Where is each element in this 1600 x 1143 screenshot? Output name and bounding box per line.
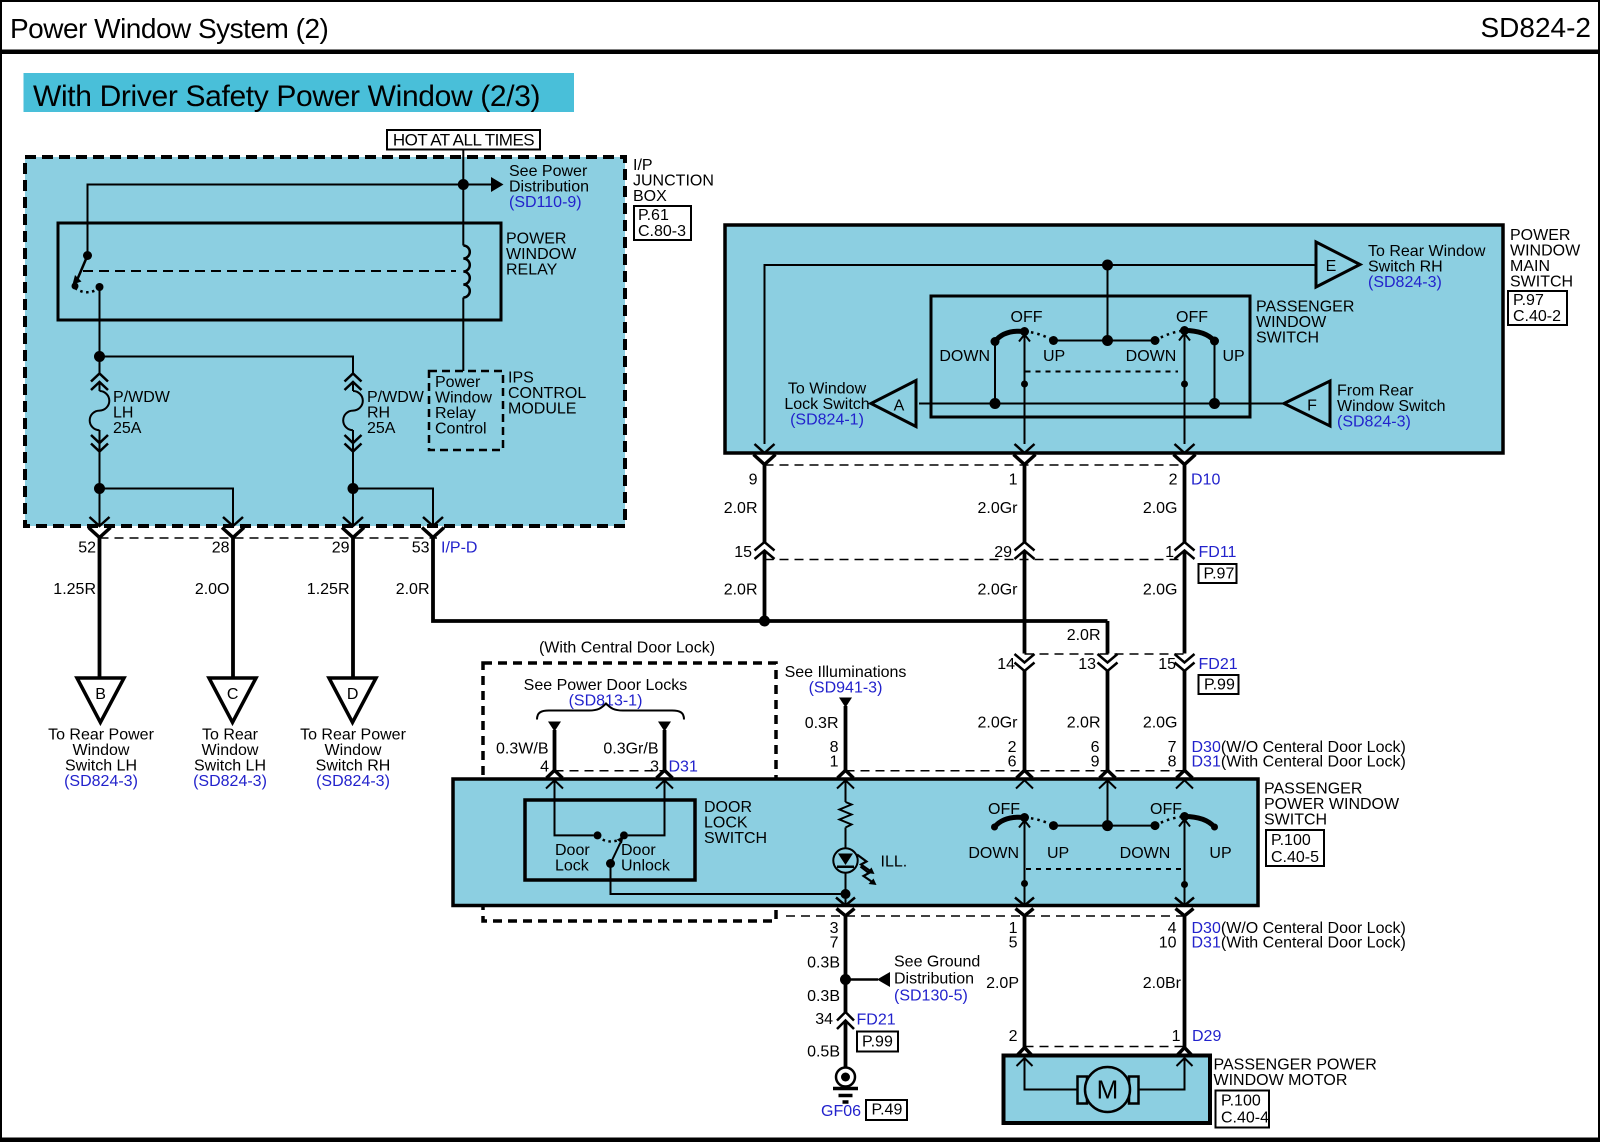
wire: hot feed to relay switch bbox=[88, 185, 464, 256]
svg-text:0.5B: 0.5B bbox=[807, 1044, 840, 1061]
svg-text:E: E bbox=[1326, 258, 1337, 275]
wire 2.0G FD11 to FD21 bbox=[1183, 551, 1187, 654]
svg-text:DOWN: DOWN bbox=[1126, 348, 1177, 365]
svg-text:To Rear: To Rear bbox=[202, 727, 259, 744]
svg-text:P.97: P.97 bbox=[1513, 292, 1544, 309]
wire: rocker bridge bbox=[1054, 340, 1156, 342]
svg-text:7: 7 bbox=[830, 935, 839, 952]
node: RH fuse output junction bbox=[348, 483, 359, 494]
wire 2.0R FD11 to junction bbox=[763, 551, 767, 622]
wire 2.0G FD21 to switch bbox=[1183, 671, 1187, 771]
entry chevrons above box edge bbox=[547, 770, 563, 778]
wire: pin 3 into door lock contact bbox=[628, 780, 665, 835]
svg-text:Window: Window bbox=[202, 742, 259, 759]
connector D29 chevrons bbox=[1016, 1048, 1033, 1057]
svg-text:0.3B: 0.3B bbox=[807, 955, 840, 972]
svg-text:D31(With Centeral Door Lock): D31(With Centeral Door Lock) bbox=[1192, 935, 1406, 952]
node: DOWN contact to A wire bbox=[990, 398, 1001, 409]
svg-text:MAIN: MAIN bbox=[1510, 258, 1550, 275]
svg-text:I/P: I/P bbox=[633, 157, 653, 174]
wire: door lock common to ILL junction bbox=[611, 864, 846, 895]
main switch ref P.97 C.40-2 bbox=[1508, 291, 1567, 325]
PASSENGER WINDOW SWITCH inner box bbox=[931, 296, 1250, 417]
svg-text:D31(With Centeral Door Lock): D31(With Centeral Door Lock) bbox=[1192, 754, 1406, 771]
svg-text:Unlock: Unlock bbox=[621, 858, 671, 875]
svg-text:15: 15 bbox=[734, 544, 752, 561]
svg-text:2.0P: 2.0P bbox=[986, 975, 1019, 992]
connector I/P-D exit arrows at box edge bbox=[90, 517, 110, 526]
svg-text:C: C bbox=[227, 686, 239, 703]
svg-text:3: 3 bbox=[650, 759, 659, 776]
wire 2.0O to triangle C bbox=[231, 538, 235, 678]
relay switch contact bbox=[83, 251, 92, 260]
svg-text:53: 53 bbox=[412, 540, 430, 557]
wire: relay output down bbox=[99, 287, 101, 357]
triangle E bbox=[1316, 242, 1360, 287]
svg-text:C.80-3: C.80-3 bbox=[638, 223, 686, 240]
wire and arrow See Ground Distribution bbox=[846, 978, 879, 981]
svg-text:(SD824-3): (SD824-3) bbox=[193, 773, 267, 790]
svg-text:SWITCH: SWITCH bbox=[1256, 330, 1319, 347]
svg-text:See Power: See Power bbox=[509, 163, 588, 180]
svg-text:0.3R: 0.3R bbox=[805, 715, 839, 732]
bottom exit chevrons bbox=[837, 909, 855, 916]
svg-text:52: 52 bbox=[78, 540, 96, 557]
svg-text:OFF: OFF bbox=[1176, 309, 1208, 326]
wire: center junction riser bbox=[1107, 780, 1109, 825]
node: ground distribution junction bbox=[840, 974, 851, 985]
wire LED to exit bbox=[845, 873, 847, 906]
svg-text:2.0G: 2.0G bbox=[1143, 715, 1178, 732]
svg-text:2.0G: 2.0G bbox=[1143, 582, 1178, 599]
svg-text:WINDOW: WINDOW bbox=[1256, 314, 1327, 331]
wire: upper left rocker common with up-arrow bbox=[1019, 335, 1030, 342]
node: ILL junction bbox=[841, 889, 851, 899]
wire: pin 4 into door lock contact bbox=[555, 780, 594, 835]
svg-text:FD21: FD21 bbox=[857, 1012, 896, 1029]
DOOR LOCK SWITCH box bbox=[525, 800, 695, 880]
upper left rocker switch bbox=[939, 309, 1065, 404]
svg-text:B: B bbox=[95, 686, 106, 703]
ground GF06 bbox=[836, 1068, 855, 1087]
svg-text:OFF: OFF bbox=[1150, 801, 1182, 818]
svg-text:DOWN: DOWN bbox=[1120, 845, 1171, 862]
svg-text:SWITCH: SWITCH bbox=[704, 830, 767, 847]
svg-text:Window: Window bbox=[325, 742, 382, 759]
upper right rocker switch bbox=[1126, 309, 1245, 404]
svg-text:BOX: BOX bbox=[633, 188, 667, 205]
connector D30 bottom dashed line bbox=[786, 915, 1185, 917]
svg-text:Switch LH: Switch LH bbox=[194, 758, 266, 775]
svg-text:(SD824-3): (SD824-3) bbox=[316, 773, 390, 790]
wire 2.0Gr FD11 to FD21 bbox=[1023, 551, 1027, 654]
svg-text:P.100: P.100 bbox=[1221, 1093, 1261, 1110]
svg-text:4: 4 bbox=[540, 759, 549, 776]
svg-text:(SD824-1): (SD824-1) bbox=[790, 412, 864, 429]
arrow to door lock wire 3 bbox=[658, 722, 671, 732]
svg-text:DOOR: DOOR bbox=[704, 799, 752, 816]
svg-text:2.0R: 2.0R bbox=[1067, 627, 1101, 644]
node: LH fuse output junction bbox=[94, 483, 105, 494]
svg-text:UP: UP bbox=[1209, 845, 1231, 862]
svg-text:ILL.: ILL. bbox=[881, 854, 908, 871]
svg-text:JUNCTION: JUNCTION bbox=[633, 173, 714, 190]
svg-text:2.0Gr: 2.0Gr bbox=[977, 715, 1018, 732]
svg-text:(SD941-3): (SD941-3) bbox=[809, 680, 883, 697]
triangle A bbox=[871, 381, 916, 427]
svg-text:1: 1 bbox=[830, 754, 839, 771]
mechanical link dashed bbox=[1026, 371, 1179, 373]
node: E feed junction bbox=[1102, 260, 1113, 271]
svg-text:1: 1 bbox=[1165, 544, 1174, 561]
svg-text:Window: Window bbox=[73, 742, 130, 759]
wire resistor to LED bbox=[845, 828, 847, 849]
connector I/P-D dashed line bbox=[100, 537, 438, 539]
triangle F bbox=[1284, 381, 1330, 426]
wire 0.3W/B bbox=[553, 730, 557, 771]
HOT AT ALL TIMES label bbox=[387, 130, 540, 150]
connector FD21 chevrons pin 13 bbox=[1098, 654, 1118, 671]
connector FD21 chevrons pin 15 bbox=[1175, 654, 1195, 671]
svg-text:1.25R: 1.25R bbox=[53, 581, 96, 598]
wire 2.0Gr pin1 to FD11 bbox=[1023, 465, 1027, 543]
svg-text:(SD824-3): (SD824-3) bbox=[64, 773, 138, 790]
connector FD11 dashed line bbox=[765, 559, 1185, 561]
relay switch lever bbox=[78, 256, 88, 280]
connector D10 chevrons bbox=[754, 455, 776, 465]
wire: branch to pin 53 bbox=[353, 489, 433, 527]
connector dashed line D30 top bbox=[846, 770, 1185, 772]
LED ILL bbox=[833, 848, 857, 872]
entry arrows inside box bbox=[546, 780, 563, 788]
wire: lower right rocker common bbox=[1179, 820, 1190, 827]
svg-text:2.0R: 2.0R bbox=[1067, 715, 1101, 732]
svg-text:25A: 25A bbox=[367, 420, 396, 437]
svg-text:14: 14 bbox=[997, 656, 1015, 673]
svg-text:0.3B: 0.3B bbox=[807, 988, 840, 1005]
svg-text:C.40-5: C.40-5 bbox=[1271, 849, 1319, 866]
brace bbox=[537, 704, 684, 720]
arrow to door lock wire 4 bbox=[548, 722, 561, 732]
wire: lower rocker bridge bbox=[1054, 825, 1156, 827]
svg-text:P/WDW: P/WDW bbox=[367, 389, 425, 406]
svg-text:POWER: POWER bbox=[506, 231, 566, 248]
svg-text:1: 1 bbox=[1009, 472, 1018, 489]
motor ref P.100 C.40-4 bbox=[1216, 1091, 1270, 1128]
svg-text:2.0Gr: 2.0Gr bbox=[977, 582, 1018, 599]
svg-text:Switch RH: Switch RH bbox=[316, 758, 391, 775]
svg-text:Distribution: Distribution bbox=[894, 971, 974, 988]
svg-text:Switch LH: Switch LH bbox=[65, 758, 137, 775]
svg-text:WINDOW: WINDOW bbox=[506, 246, 577, 263]
wire: 2.0R over to FD21 pin 13 bbox=[1106, 621, 1110, 654]
wire: window lock line A to F bbox=[919, 403, 1284, 405]
svg-text:(SD110-9): (SD110-9) bbox=[509, 194, 582, 211]
svg-text:PASSENGER: PASSENGER bbox=[1256, 299, 1354, 316]
triangle D bbox=[329, 678, 376, 722]
connector D29 dashed line bbox=[1025, 1046, 1185, 1048]
triangle C bbox=[209, 678, 256, 722]
svg-text:P.99: P.99 bbox=[862, 1034, 893, 1051]
svg-text:UP: UP bbox=[1223, 348, 1245, 365]
PASSENGER POWER WINDOW SWITCH box bbox=[453, 779, 1258, 906]
svg-text:POWER: POWER bbox=[1510, 227, 1570, 244]
svg-text:0.3Gr/B: 0.3Gr/B bbox=[603, 741, 658, 758]
svg-text:15: 15 bbox=[1158, 656, 1176, 673]
svg-text:13: 13 bbox=[1078, 656, 1096, 673]
connector FD11 chevrons pin 29 bbox=[1015, 542, 1035, 559]
svg-text:POWER WINDOW: POWER WINDOW bbox=[1264, 796, 1400, 813]
svg-text:UP: UP bbox=[1043, 348, 1065, 365]
motor brushes bbox=[1078, 1077, 1088, 1104]
main switch exit arrows bbox=[755, 444, 775, 453]
svg-text:Window Switch: Window Switch bbox=[1337, 398, 1445, 415]
node: 2.0R tee junction bbox=[759, 616, 770, 627]
node: hot feed junction bbox=[458, 179, 469, 190]
wire: hot feed down to relay coil bbox=[462, 150, 464, 246]
svg-text:Lock Switch: Lock Switch bbox=[784, 396, 869, 413]
node: UP contact to F wire bbox=[1209, 398, 1220, 409]
connector FD11 chevrons pin 1 bbox=[1175, 542, 1195, 559]
svg-text:WINDOW MOTOR: WINDOW MOTOR bbox=[1214, 1072, 1348, 1089]
svg-text:Door: Door bbox=[555, 842, 590, 859]
wire into LH fuse bbox=[99, 357, 101, 375]
svg-text:Relay: Relay bbox=[435, 405, 476, 422]
POWER WINDOW MAIN SWITCH box bbox=[725, 225, 1503, 453]
FD11 ref P.97 bbox=[1199, 564, 1237, 583]
connector FD11 chevrons pin 15 bbox=[755, 542, 775, 559]
svg-text:1.25R: 1.25R bbox=[307, 581, 350, 598]
wire to See Power Distribution arrow bbox=[463, 184, 491, 186]
wire: branch to pin 28 bbox=[100, 489, 234, 527]
svg-text:(SD824-3): (SD824-3) bbox=[1337, 414, 1411, 431]
svg-text:P.49: P.49 bbox=[872, 1102, 903, 1119]
svg-text:To Rear Window: To Rear Window bbox=[1368, 243, 1486, 260]
svg-text:2.0Br: 2.0Br bbox=[1143, 975, 1182, 992]
wire 2.0R pin9 to FD11 bbox=[763, 465, 767, 543]
wire: junction down to switch center bbox=[1107, 265, 1109, 341]
fuse P/WDW LH 25A bbox=[90, 374, 171, 452]
wire 2.0G pin2 to FD11 bbox=[1183, 465, 1187, 543]
connector FD21 dashed line bbox=[1025, 653, 1185, 655]
svg-text:D10: D10 bbox=[1191, 472, 1220, 489]
wire 0.3B ground branch bbox=[844, 916, 848, 1012]
svg-text:P.97: P.97 bbox=[1204, 566, 1235, 583]
svg-text:To Window: To Window bbox=[788, 381, 867, 398]
node: lower switch center junction bbox=[1102, 820, 1113, 831]
wire 2.0P to motor bbox=[1023, 916, 1027, 1048]
wire 1.25R to triangle D bbox=[351, 538, 355, 678]
wire 2.0R to junction row bbox=[433, 538, 1108, 622]
svg-text:A: A bbox=[894, 398, 905, 415]
svg-text:25A: 25A bbox=[113, 420, 142, 437]
connector dashed line door lock bbox=[555, 770, 665, 772]
svg-text:To Rear Power: To Rear Power bbox=[48, 727, 154, 744]
wire 2.0Gr FD21 to switch bbox=[1023, 671, 1027, 771]
relay switch dotted throw arc bbox=[75, 288, 100, 292]
svg-text:D31: D31 bbox=[669, 759, 698, 776]
wire: lower left rocker common bbox=[1019, 821, 1030, 828]
ground ref P.49 bbox=[866, 1100, 907, 1120]
svg-text:FD21: FD21 bbox=[1199, 656, 1238, 673]
svg-text:With Driver Safety Power Windo: With Driver Safety Power Window (2/3) bbox=[33, 80, 540, 113]
svg-text:M: M bbox=[1097, 1075, 1119, 1105]
door lock contacts bbox=[594, 831, 602, 839]
svg-text:Control: Control bbox=[435, 421, 487, 438]
svg-text:UP: UP bbox=[1047, 845, 1069, 862]
svg-text:LH: LH bbox=[113, 405, 133, 422]
svg-text:(SD130-5): (SD130-5) bbox=[894, 988, 968, 1005]
svg-text:10: 10 bbox=[1159, 935, 1177, 952]
svg-text:9: 9 bbox=[749, 472, 758, 489]
svg-text:C.40-2: C.40-2 bbox=[1513, 308, 1561, 325]
svg-text:P/WDW: P/WDW bbox=[113, 389, 171, 406]
svg-text:P.100: P.100 bbox=[1271, 832, 1311, 849]
svg-text:SWITCH: SWITCH bbox=[1510, 274, 1573, 291]
svg-text:RH: RH bbox=[367, 405, 390, 422]
svg-text:Door: Door bbox=[621, 842, 656, 859]
svg-text:Window: Window bbox=[435, 390, 492, 407]
svg-text:6: 6 bbox=[1008, 754, 1017, 771]
svg-text:29: 29 bbox=[994, 544, 1012, 561]
svg-text:To Rear Power: To Rear Power bbox=[300, 727, 406, 744]
wire 0.3R illumination feed bbox=[844, 706, 848, 771]
wire: ILL branch down bbox=[845, 780, 847, 802]
connector FD21 chevrons pin 14 bbox=[1015, 654, 1035, 671]
svg-text:FD11: FD11 bbox=[1199, 544, 1237, 561]
svg-text:LOCK: LOCK bbox=[704, 815, 748, 832]
svg-text:2.0R: 2.0R bbox=[724, 582, 758, 599]
wire: LH fuse down bbox=[99, 444, 101, 527]
door lock dotted arc bbox=[598, 837, 625, 842]
svg-text:P.99: P.99 bbox=[1204, 677, 1235, 694]
svg-text:See Illuminations: See Illuminations bbox=[785, 664, 907, 681]
I/P junction box ref P.61 C.80-3 bbox=[634, 206, 691, 240]
svg-text:DOWN: DOWN bbox=[939, 348, 990, 365]
svg-text:IPS: IPS bbox=[508, 370, 534, 387]
node: switch center junction bbox=[1102, 335, 1113, 346]
wire: RH fuse down bbox=[352, 444, 354, 527]
svg-text:OFF: OFF bbox=[1011, 309, 1043, 326]
motor entry arrows bbox=[1017, 1058, 1033, 1066]
connector FD21 pin 34 bbox=[837, 1012, 854, 1029]
connector D10 dashed line bbox=[765, 464, 1185, 466]
connector I/P-D chevrons bbox=[89, 528, 111, 538]
svg-text:5: 5 bbox=[1009, 935, 1018, 952]
svg-text:WINDOW: WINDOW bbox=[1510, 243, 1581, 260]
svg-text:(SD824-3): (SD824-3) bbox=[1368, 274, 1442, 291]
wire: pin 9 riser and E feed bbox=[765, 265, 1317, 444]
svg-text:(With Central Door Lock): (With Central Door Lock) bbox=[539, 640, 715, 657]
exit arrows bottom of switch box bbox=[836, 898, 855, 906]
relay coil bbox=[463, 246, 470, 298]
fuse P/WDW RH 25A bbox=[343, 374, 425, 452]
svg-text:From Rear: From Rear bbox=[1337, 383, 1414, 400]
svg-text:DOWN: DOWN bbox=[968, 845, 1019, 862]
svg-text:P.61: P.61 bbox=[638, 207, 669, 224]
wire 0.5B to ground bbox=[844, 1021, 848, 1068]
svg-text:2: 2 bbox=[1169, 472, 1178, 489]
svg-text:PASSENGER POWER: PASSENGER POWER bbox=[1214, 1057, 1377, 1074]
svg-text:Distribution: Distribution bbox=[509, 179, 589, 196]
lower left rocker switch bbox=[968, 801, 1069, 862]
svg-text:Lock: Lock bbox=[555, 858, 590, 875]
relay switch output contact bbox=[96, 283, 104, 291]
svg-text:Power: Power bbox=[435, 374, 481, 391]
lower mechanical link dashed bbox=[1026, 868, 1183, 870]
svg-text:I/P-D: I/P-D bbox=[441, 540, 477, 557]
svg-text:2.0R: 2.0R bbox=[724, 500, 758, 517]
svg-text:CONTROL: CONTROL bbox=[508, 385, 586, 402]
lower right rocker switch bbox=[1120, 801, 1232, 862]
node: relay output junction bbox=[94, 351, 105, 362]
PASSENGER POWER WINDOW MOTOR box bbox=[1004, 1056, 1211, 1124]
wire 2.0R FD21 to switch bbox=[1106, 671, 1110, 771]
svg-text:D: D bbox=[347, 686, 359, 703]
svg-text:PASSENGER: PASSENGER bbox=[1264, 780, 1362, 797]
wire: coil to IPS control module bbox=[462, 298, 464, 372]
svg-text:(SD813-1): (SD813-1) bbox=[569, 693, 643, 710]
IPS control module dashed box bbox=[429, 371, 503, 450]
FD21 ref P.99 bbox=[857, 1032, 898, 1052]
svg-text:2.0O: 2.0O bbox=[195, 581, 230, 598]
subtitle banner bbox=[24, 73, 575, 112]
svg-text:9: 9 bbox=[1091, 754, 1100, 771]
triangle B bbox=[77, 678, 124, 722]
svg-text:34: 34 bbox=[815, 1011, 833, 1028]
svg-text:HOT AT ALL TIMES: HOT AT ALL TIMES bbox=[393, 131, 534, 150]
wire 1.25R to triangle B bbox=[98, 538, 102, 678]
wire 0.3Gr/B bbox=[663, 730, 667, 771]
svg-text:RELAY: RELAY bbox=[506, 262, 558, 279]
door lock lever with arrow bbox=[611, 843, 621, 864]
svg-text:D29: D29 bbox=[1192, 1028, 1221, 1045]
resistor bbox=[840, 802, 852, 828]
relay box POWER WINDOW RELAY bbox=[58, 223, 501, 320]
svg-text:SWITCH: SWITCH bbox=[1264, 811, 1327, 828]
svg-text:C.40-4: C.40-4 bbox=[1221, 1110, 1269, 1127]
svg-text:GF06: GF06 bbox=[821, 1103, 861, 1120]
svg-text:2: 2 bbox=[1009, 1028, 1018, 1045]
svg-text:1: 1 bbox=[1172, 1028, 1181, 1045]
svg-text:MODULE: MODULE bbox=[508, 401, 576, 418]
svg-text:F: F bbox=[1307, 398, 1317, 415]
FD21 ref P.99 bbox=[1199, 675, 1239, 694]
svg-text:See Ground: See Ground bbox=[894, 954, 980, 971]
motor M bbox=[1085, 1067, 1130, 1112]
svg-text:Switch RH: Switch RH bbox=[1368, 259, 1443, 276]
svg-text:SD824-2: SD824-2 bbox=[1480, 12, 1591, 43]
wire: branch to RH fuse bbox=[100, 357, 354, 375]
svg-text:2.0Gr: 2.0Gr bbox=[977, 500, 1018, 517]
svg-text:8: 8 bbox=[1168, 754, 1177, 771]
svg-text:2.0G: 2.0G bbox=[1143, 500, 1178, 517]
svg-text:See Power Door Locks: See Power Door Locks bbox=[524, 677, 688, 694]
I/P junction box (cyan dashed) bbox=[25, 157, 625, 526]
svg-text:0.3W/B: 0.3W/B bbox=[496, 741, 548, 758]
switch ref P.100 C.40-5 bbox=[1266, 830, 1324, 866]
wire: upper right rocker common with up-arrow bbox=[1179, 334, 1190, 341]
svg-text:Power Window System (2): Power Window System (2) bbox=[10, 13, 328, 44]
wires to motor brushes bbox=[1025, 1058, 1078, 1090]
relay actuation dashed link bbox=[83, 270, 456, 272]
svg-text:29: 29 bbox=[332, 540, 350, 557]
svg-text:28: 28 bbox=[212, 540, 230, 557]
wire 2.0Br to motor bbox=[1183, 916, 1187, 1048]
svg-text:2.0R: 2.0R bbox=[396, 581, 430, 598]
